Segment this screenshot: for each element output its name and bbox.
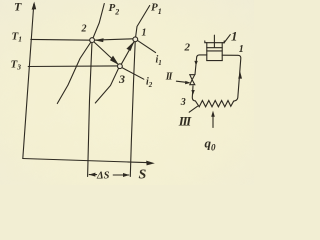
svg-text:1: 1 xyxy=(231,29,238,44)
arrow 3 to 1 head xyxy=(126,41,134,51)
S axis arrowhead xyxy=(146,161,155,166)
T1 isotherm line xyxy=(31,39,136,41)
pointer from label II to valve xyxy=(176,81,188,82)
arrow 2 to 3 line xyxy=(93,41,119,65)
S axis (horizontal) xyxy=(23,159,151,163)
svg-text:1: 1 xyxy=(239,44,244,55)
svg-text:T: T xyxy=(14,0,22,14)
P1 isobar line xyxy=(136,6,150,38)
piston rod xyxy=(213,35,215,47)
svg-text:2: 2 xyxy=(184,42,191,54)
flow arrow up (right pipe) xyxy=(238,72,242,79)
i1 isenthalp xyxy=(138,41,156,53)
q0 heat arrow xyxy=(212,115,214,128)
svg-text:1: 1 xyxy=(142,28,147,39)
pointer line to label 1 xyxy=(224,35,230,43)
svg-text:2: 2 xyxy=(81,24,87,35)
flow arrow down (upper left pipe) xyxy=(194,61,197,66)
state point 3 xyxy=(118,64,123,69)
pointer from label III to coil xyxy=(189,106,197,112)
delta-S dimension left arrow xyxy=(89,174,96,176)
vertical drop line below point 1 xyxy=(130,42,135,177)
compressor cylinder bottom xyxy=(207,60,222,62)
wire: right pipe from coil up to compressor xyxy=(222,55,241,101)
T3 isotherm line xyxy=(28,65,117,68)
svg-text:S: S xyxy=(139,168,147,183)
vertical drop line below point 2 xyxy=(88,42,92,177)
line 3 to 1 xyxy=(120,40,134,65)
evaporator coil III (zigzag) xyxy=(195,101,233,107)
compressor cylinder U1: left wall xyxy=(206,43,208,61)
delta-S dimension right arrow xyxy=(113,174,129,176)
arrow 1 to 2 head xyxy=(94,38,103,42)
saturation line below point 3 xyxy=(95,68,118,103)
state point 1 xyxy=(133,37,138,42)
svg-text:3: 3 xyxy=(118,72,125,86)
svg-text:3: 3 xyxy=(180,97,186,108)
T axis arrowhead xyxy=(32,2,37,10)
compressor cylinder right wall xyxy=(221,43,223,61)
T axis (vertical, slightly skewed) xyxy=(23,4,34,159)
svg-text:ΔS: ΔS xyxy=(96,171,110,182)
piston double line xyxy=(207,48,222,51)
i2 isenthalp xyxy=(122,68,144,80)
compressor top rim with end ticks xyxy=(205,41,224,43)
P2 isobar line xyxy=(57,4,104,104)
state point 2 xyxy=(90,38,95,43)
arrow 2 to 3 head xyxy=(110,56,119,65)
wire: left pipe from compressor to valve and down xyxy=(192,55,207,101)
flow arrow down (lower left pipe) xyxy=(191,90,194,95)
expansion valve II (hourglass) xyxy=(190,75,195,85)
